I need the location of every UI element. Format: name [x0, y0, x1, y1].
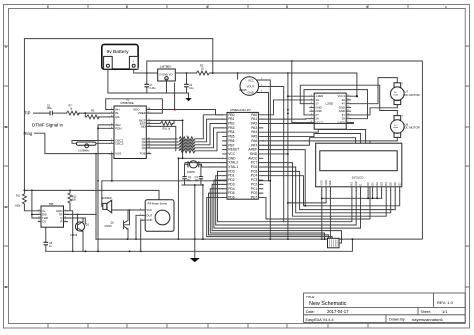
- crystal X2 16MHz: [185, 161, 223, 174]
- svg-text:3.579MHz: 3.579MHz: [78, 149, 90, 152]
- capacitor C5 100u: [47, 104, 53, 115]
- wire: INH PDN to x=98 vertical: [98, 125, 110, 251]
- wire: ATmega GND row to rail: [178, 158, 222, 239]
- wire: lower bundle PD0-PD2 to RS RW E: [214, 171, 361, 228]
- svg-text:L293D: L293D: [326, 102, 334, 106]
- svg-text:EasyEDA V4.4.4: EasyEDA V4.4.4: [306, 318, 334, 322]
- svg-text:nayemzannatun6: nayemzannatun6: [412, 317, 443, 322]
- node: rail junctions: [72, 238, 354, 252]
- svg-text:DC MOTOR: DC MOTOR: [405, 126, 420, 130]
- resistor network R8-R12: [151, 126, 195, 152]
- battery B1 9v: [102, 44, 138, 69]
- regulator U5 LM7805: [158, 64, 176, 81]
- svg-text:VCC: VCC: [146, 208, 152, 212]
- LCD U10 16*2: [316, 143, 402, 190]
- svg-text:0.1u: 0.1u: [189, 87, 194, 90]
- wire: crystal caps common: [182, 185, 203, 239]
- svg-text:TOE: TOE: [139, 152, 145, 156]
- node: R7/R6 junction: [84, 112, 86, 114]
- wire: LM35 VCC from 5V rail: [237, 73, 239, 79]
- wire: 9V rail: [147, 61, 423, 239]
- title block: [248, 293, 465, 322]
- svg-text:0.33u: 0.33u: [150, 87, 157, 90]
- wire: 5V down to L293D VCC1: [351, 73, 357, 96]
- svg-text:PD6: PD6: [228, 195, 235, 199]
- border reference numerals: [5, 5, 447, 289]
- svg-text:New Schematic: New Schematic: [309, 301, 347, 307]
- svg-text:TITLE:: TITLE:: [306, 295, 315, 299]
- crystal X1 3.579MHz: [72, 141, 110, 153]
- svg-text:R11: R11: [16, 194, 21, 197]
- svg-text:R16 1k: R16 1k: [163, 128, 171, 131]
- svg-text:LM35: LM35: [240, 88, 247, 92]
- svg-text:-: -: [107, 60, 108, 63]
- svg-text:CV: CV: [42, 220, 46, 224]
- svg-text:PIR Motion Sensor: PIR Motion Sensor: [148, 203, 168, 206]
- node: 9V rail junction: [291, 60, 293, 62]
- svg-text:R: R: [60, 220, 62, 224]
- svg-text:C1815: C1815: [105, 225, 113, 228]
- node: buzzer-PIR junction: [129, 209, 131, 211]
- motor U8 DC MOTOR: [391, 115, 420, 138]
- svg-text:GS: GS: [115, 115, 119, 119]
- svg-text:16*2LCD: 16*2LCD: [352, 175, 363, 179]
- svg-text:Drawn By:: Drawn By:: [389, 318, 406, 322]
- wire: Ring: [35, 133, 110, 153]
- resistor R6: [85, 109, 109, 119]
- resistor R16 1k: [151, 120, 174, 130]
- svg-text:VDD: VDD: [324, 180, 328, 186]
- sensor U6 PIR Motion Sensor: [140, 200, 174, 232]
- IC U3 L293D: [310, 93, 351, 129]
- wire: x=31.9 to 555: [32, 190, 38, 218]
- capacitor C1 0.33u: [144, 73, 156, 93]
- wire: 1Y loop to motor U8 top: [300, 85, 397, 115]
- bottom rail A: [96, 238, 422, 240]
- node: ring/vss junction: [95, 153, 97, 155]
- svg-text:GND: GND: [146, 218, 152, 222]
- wire: PIR GND down: [141, 220, 143, 251]
- IC U2 ATMEGA32A-PU: [223, 108, 263, 199]
- svg-text:VSS: VSS: [320, 180, 324, 185]
- svg-text:RW: RW: [354, 181, 358, 186]
- motor U7 DC MOTOR: [391, 82, 420, 105]
- IC U1 MT8870DE: [110, 98, 151, 159]
- wire: big boundary top-left: [24, 39, 212, 191]
- wire: lower bundle PD3-PD6: [207, 184, 342, 239]
- wire: PA0 to 1A: [263, 100, 310, 115]
- svg-text:A: A: [5, 45, 7, 49]
- wire: IN+ loop over chip: [106, 99, 163, 113]
- wire: horizontal run y=180.8: [102, 181, 270, 204]
- wire: AVCC row to 5V: [263, 153, 288, 155]
- svg-text:TIP: TIP: [24, 111, 31, 116]
- svg-text:LM7805: LM7805: [160, 64, 171, 68]
- svg-text:OUT: OUT: [146, 213, 152, 217]
- svg-text:D3: D3: [379, 182, 383, 186]
- svg-text:D6: D6: [393, 182, 397, 186]
- wire: LCD VEE to pot: [329, 191, 331, 239]
- svg-text:VREF: VREF: [138, 111, 146, 115]
- IC U4 555: [38, 202, 67, 227]
- buzzer LS1: [102, 197, 146, 213]
- wire: 7805 to VDD: [174, 83, 176, 110]
- wire: PIR OUT down: [136, 215, 143, 239]
- svg-text:E: E: [358, 184, 362, 186]
- wire: vertical x=96 from ring row: [95, 154, 97, 240]
- svg-text:Q4: Q4: [142, 146, 146, 150]
- capacitor C3 22p: [182, 164, 191, 185]
- wire: 4Y to motor U7 top: [351, 78, 398, 104]
- node: battery junction: [146, 72, 148, 74]
- wire: PC4-PC7 to LCD D4-D7 bundle: [263, 163, 400, 217]
- transistor Q2 C1815: [105, 210, 130, 239]
- svg-text:22p: 22p: [187, 179, 192, 182]
- wire: LM35 VCC right: [263, 80, 270, 239]
- wire: motor U8 bottom long return: [263, 137, 398, 219]
- ground: main: [190, 239, 200, 262]
- wire: resistor risers to PB0-PB4: [195, 115, 223, 151]
- wire: LM35 VOUT: [263, 87, 284, 223]
- wire: x=291.8 from 9V rail down to VCC2: [292, 61, 310, 122]
- wire: VDD row to right: [151, 110, 223, 115]
- svg-text:22p: 22p: [195, 179, 200, 182]
- svg-text:1/1: 1/1: [442, 309, 448, 314]
- wire: AREF row down: [263, 150, 305, 206]
- wire: StGT row down: [151, 120, 183, 158]
- svg-text:D2: D2: [375, 182, 379, 186]
- svg-text:VSS: VSS: [115, 152, 121, 156]
- svg-text:555: 555: [49, 202, 54, 206]
- svg-text:motor: motor: [393, 93, 398, 96]
- transistor Q1 C1815: [70, 214, 90, 251]
- wire: battery minus down: [108, 69, 147, 93]
- svg-text:GND: GND: [248, 91, 254, 95]
- bottom rail B: [46, 239, 353, 251]
- svg-text:Sheet:: Sheet:: [421, 310, 431, 314]
- svg-text:D5: D5: [389, 182, 393, 186]
- svg-text:B: B: [5, 125, 7, 129]
- svg-text:VEE: VEE: [328, 180, 332, 185]
- wire: PA6 row to motor U8 return: [263, 140, 370, 142]
- wire: LCD VSS and D0-D3 ground row: [322, 191, 382, 240]
- wire: PA4-PA7 loop over LCD: [263, 130, 366, 146]
- wire: LCD VDD to 5V: [288, 191, 326, 203]
- wire: battery plus to regulator: [134, 69, 158, 73]
- capacitor C2 0.1u: [184, 72, 194, 93]
- wire: TIP in: [34, 112, 50, 114]
- wire: LM35 GND: [263, 93, 268, 181]
- wire: EN from 5V vertical: [288, 95, 310, 97]
- svg-text:VI GND VO: VI GND VO: [159, 73, 172, 77]
- svg-text:PD7: PD7: [251, 195, 258, 199]
- svg-text:BUZZER: BUZZER: [102, 197, 112, 200]
- svg-text:StD: StD: [141, 124, 147, 128]
- svg-text:Date:: Date:: [306, 310, 315, 314]
- capacitor C4 22p: [195, 164, 204, 185]
- svg-text:C1815: C1815: [70, 234, 78, 237]
- svg-text:MT8870DE: MT8870DE: [121, 101, 134, 105]
- svg-text:D4: D4: [384, 182, 388, 186]
- svg-text:motor: motor: [393, 126, 398, 129]
- node: VDD red junction: [174, 108, 176, 110]
- wire: 555 Q row: [68, 218, 86, 224]
- svg-text:DTMF Signal in: DTMF Signal in: [32, 122, 64, 127]
- wire: 3Y to motor U7 bottom: [351, 105, 398, 115]
- svg-text:DC MOTOR: DC MOTOR: [405, 93, 420, 97]
- wire: regulator ground: [147, 81, 189, 93]
- svg-text:VOUT: VOUT: [247, 84, 255, 88]
- svg-text:D1: D1: [370, 182, 374, 186]
- resistor R13 10k: [68, 190, 78, 251]
- sensor U9 LM35: [240, 77, 264, 96]
- svg-text:Ring: Ring: [24, 131, 33, 136]
- svg-text:RS: RS: [350, 182, 354, 186]
- svg-text:PDN: PDN: [115, 126, 121, 130]
- svg-text:VCC: VCC: [248, 79, 254, 83]
- wire: 5V vertical x=287.9: [287, 73, 289, 239]
- svg-text:D7: D7: [398, 182, 402, 186]
- capacitor C8 1u: [44, 224, 53, 251]
- wire: VSS down and under chip: [110, 154, 112, 181]
- wire: PA2 to 3,4EN: [263, 122, 354, 123]
- resistor R2 1k: [175, 63, 357, 75]
- svg-text:9v Battery: 9v Battery: [107, 49, 130, 55]
- resistor R11 200k: [15, 190, 38, 210]
- wire: PA1 to 2A: [263, 118, 310, 120]
- svg-text:2017-04-17: 2017-04-17: [327, 309, 349, 314]
- ground: regulator: [185, 93, 191, 101]
- potentiometer R14: [328, 238, 342, 248]
- svg-text:REV: 1.0: REV: 1.0: [437, 300, 454, 305]
- wire: 2Y loop to 3A: [304, 90, 368, 119]
- svg-text:16MHz: 16MHz: [187, 171, 196, 174]
- wire: horizontal run y=190.4 to PIR: [24, 190, 159, 199]
- node: 5V rail junctions: [212, 72, 289, 74]
- wire: 555 TR row: [68, 213, 97, 215]
- svg-text:200k: 200k: [15, 204, 21, 207]
- svg-text:OSC2: OSC2: [115, 141, 124, 145]
- svg-text:ATMEGA32A-PU: ATMEGA32A-PU: [230, 108, 251, 112]
- svg-text:100u: 100u: [47, 107, 53, 110]
- resistor R7 1k: [53, 105, 110, 116]
- svg-text:D0: D0: [366, 182, 370, 186]
